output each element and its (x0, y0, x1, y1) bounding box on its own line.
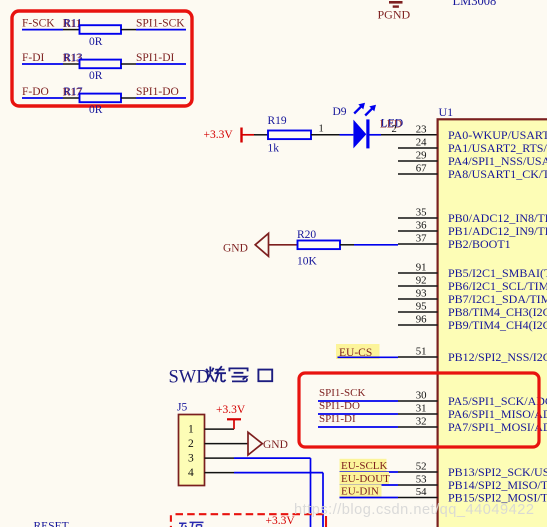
resistor R17 body (80, 94, 122, 103)
resistor R17 left pin (63, 97, 79, 99)
svg-text:24: 24 (416, 136, 427, 148)
svg-text:PB1/ADC12_IN9/TIM3: PB1/ADC12_IN9/TIM3 (448, 224, 547, 238)
svg-text:10K: 10K (297, 256, 318, 268)
svg-text:SPI1-SCK: SPI1-SCK (319, 387, 366, 399)
svg-text:PB7/I2C1_SDA/TIM4: PB7/I2C1_SDA/TIM4 (448, 292, 547, 306)
svg-text:PA5/SPI1_SCK/ADC12: PA5/SPI1_SCK/ADC12 (448, 394, 547, 408)
svg-text:0R: 0R (89, 36, 103, 48)
wire EU-DOUT to U1 (340, 484, 399, 486)
svg-text:PA8/USART1_CK/TIM1: PA8/USART1_CK/TIM1 (448, 167, 547, 181)
svg-text:R20: R20 (297, 229, 316, 241)
resistor R19 designator (268, 115, 287, 127)
svg-text:PA6/SPI1_MISO/ADC1: PA6/SPI1_MISO/ADC1 (448, 407, 547, 421)
wire SPI1-DI to U1 (318, 426, 398, 428)
pin number 52 (416, 460, 427, 472)
pin 96 name PB9/TIM4_CH4(I2C1 (448, 318, 547, 332)
svg-text:91: 91 (416, 261, 427, 273)
svg-text:PA7/SPI1_MOSI/ADC1: PA7/SPI1_MOSI/ADC1 (448, 420, 547, 434)
pin 29 stub wire (398, 160, 438, 162)
svg-text:PB8/TIM4_CH3(I2C1: PB8/TIM4_CH3(I2C1 (448, 305, 547, 319)
diode D9 cathode bar (366, 119, 369, 148)
pin 93 name PB7/I2C1_SDA/TIM4 (448, 292, 547, 306)
resistor R19 left pin (254, 134, 268, 136)
resistor R20 body (298, 241, 341, 250)
resistor R11 body (80, 25, 122, 34)
wire J5-4 vertical down (322, 473, 324, 527)
pin number 91 (416, 261, 427, 273)
pin 52 name PB13/SPI2_SCK/USAR (448, 465, 547, 479)
pin number 30 (416, 389, 427, 401)
svg-text:PA0-WKUP/USART2_CTS: PA0-WKUP/USART2_CTS (448, 128, 547, 142)
pin J5-2 stub (205, 443, 249, 445)
power +3.3V bar symbol (242, 128, 255, 143)
diode D9 designator (333, 106, 347, 118)
svg-text:SWD: SWD (169, 368, 210, 388)
svg-text:54: 54 (416, 486, 427, 498)
svg-text:EU-DIN: EU-DIN (341, 485, 379, 497)
pin 51 stub wire (398, 356, 438, 358)
node EU-DIN highlighted label (340, 484, 382, 497)
svg-text:31: 31 (416, 402, 427, 414)
pin 92 stub wire (398, 285, 438, 287)
pin number 95 (416, 300, 427, 312)
pin number 23 (416, 123, 427, 135)
resistor R13 right pin (121, 63, 136, 65)
pin 36 name PB1/ADC12_IN9/TIM3 (448, 224, 547, 238)
svg-text:1: 1 (188, 424, 194, 436)
op-amp U1 body (MCU part) (438, 119, 547, 527)
label reserved (hanzi, clipped) (179, 522, 204, 527)
svg-text:F-DO: F-DO (22, 86, 49, 98)
node SPI1-DI (319, 413, 356, 425)
svg-text:52: 52 (416, 460, 427, 472)
pin number 24 (416, 136, 427, 148)
pin number 67 (416, 162, 427, 174)
pin 53 name PB14/SPI2_MISO/TIM (448, 478, 547, 492)
node SPI1-SCK (319, 387, 366, 399)
node F-DO (22, 86, 49, 98)
svg-text:PB2/BOOT1: PB2/BOOT1 (448, 237, 511, 251)
resistor R17 value 0R (89, 104, 103, 116)
svg-text:LM3008: LM3008 (453, 0, 497, 8)
node PGND label (378, 8, 411, 22)
pin 53 stub wire (398, 484, 438, 486)
label SWD programming port title (169, 366, 273, 387)
diode D9 LED triangle (353, 120, 366, 149)
resistor R13 value 0R (89, 70, 103, 82)
wire J5-3 vertical down (310, 458, 312, 527)
power +3.3V label (reserved box, clipped) (266, 515, 296, 527)
watermark csdn blog url (294, 502, 534, 518)
pin 91 name PB5/I2C1_SMBAI(TIM (448, 266, 547, 280)
svg-text:93: 93 (416, 287, 427, 299)
svg-text:J5: J5 (177, 402, 187, 414)
node LED (double-printed label) (381, 118, 403, 130)
svg-text:RESET: RESET (34, 521, 69, 527)
node F-SCK (22, 17, 55, 29)
svg-text:37: 37 (416, 232, 427, 244)
resistor R13 body (80, 60, 122, 69)
svg-text:GND: GND (263, 439, 288, 451)
pin 30 stub wire (398, 400, 438, 402)
connector J5 body (179, 415, 205, 486)
pin number 32 (416, 415, 427, 427)
svg-text:GND: GND (223, 243, 248, 255)
ground PGND symbol bars (389, 1, 403, 8)
pin 32 name PA7/SPI1_MOSI/ADC1 (448, 420, 547, 434)
svg-text:SPI1-DI: SPI1-DI (319, 413, 356, 425)
pin 96 stub wire (398, 324, 438, 326)
wire: net SPI1-DI right segment (136, 63, 186, 65)
resistor R20 designator (297, 229, 316, 241)
pin number 35 (416, 206, 427, 218)
pin 67 name PA8/USART1_CK/TIM1 (448, 167, 547, 181)
node EU-SCLK highlighted label (340, 459, 388, 472)
node EU-CS highlighted label (336, 344, 380, 359)
pin number 54 (416, 486, 427, 498)
annotation box: F-SCK/F-DI/F-DO jumper group (12, 11, 192, 106)
wire EU-DIN to U1 (340, 497, 399, 499)
pin 37 name PB2/BOOT1 (448, 237, 511, 251)
power +3.3V bar symbol (J5) (227, 419, 241, 429)
ground GND label (R20 branch) (223, 243, 248, 255)
svg-text:2: 2 (392, 124, 397, 135)
power +3.3V label (J5) (216, 404, 246, 416)
label LM3008 (clipped at top) (453, 0, 497, 8)
svg-text:32: 32 (416, 415, 427, 427)
svg-text:PGND: PGND (378, 8, 411, 22)
node SPI1-DI (136, 52, 175, 64)
svg-text:+3.3V: +3.3V (216, 404, 246, 416)
wire LED cathode blue segment (370, 134, 382, 136)
pin 37 stub wire (398, 243, 438, 245)
pin 93 stub wire (398, 298, 438, 300)
svg-text:SPI1-DO: SPI1-DO (319, 400, 360, 412)
svg-text:EU-SCLK: EU-SCLK (341, 460, 388, 472)
wire: net SPI1-SCK right segment (136, 29, 186, 31)
pin number 1 (LED anode) (319, 124, 324, 135)
pin 24 stub wire (398, 147, 438, 149)
pin 95 name PB8/TIM4_CH3(I2C1 (448, 305, 547, 319)
wire: net F-SCK left segment (22, 29, 63, 31)
pin 91 stub wire (398, 272, 438, 274)
svg-text:PA1/USART2_RTS/ADC1: PA1/USART2_RTS/ADC1 (448, 141, 547, 155)
pin number 96 (416, 313, 427, 325)
wire GND to R20 (269, 244, 298, 246)
connector J5 designator (177, 402, 187, 414)
pin number 31 (416, 402, 427, 414)
pin number 37 (416, 232, 427, 244)
svg-text:2: 2 (188, 438, 194, 450)
pin 67 stub wire (398, 173, 438, 175)
svg-text:D9: D9 (333, 106, 347, 118)
svg-text:96: 96 (416, 313, 427, 325)
svg-text:PA4/SPI1_NSS/USART2: PA4/SPI1_NSS/USART2 (448, 154, 547, 168)
node RESET (clipped at bottom) (34, 521, 69, 527)
svg-text:SPI1-SCK: SPI1-SCK (136, 17, 185, 29)
resistor R11 right pin (121, 29, 136, 31)
pin 35 stub wire (398, 217, 438, 219)
pin 92 name PB6/I2C1_SCL/TIM4 (448, 279, 547, 293)
svg-text:+3.3V: +3.3V (204, 129, 234, 141)
ground GND arrow symbol (255, 233, 268, 256)
wire: net SPI1-DO right segment (136, 97, 186, 99)
node F-DI (22, 52, 45, 64)
pin 35 name PB0/ADC12_IN8/TIM3 (448, 211, 547, 225)
pin number 53 (416, 473, 427, 485)
pin 52 stub wire (398, 471, 438, 473)
pin number 92 (416, 274, 427, 286)
pin 31 name PA6/SPI1_MISO/ADC1 (448, 407, 547, 421)
pin 54 stub wire (398, 497, 438, 499)
wire SPI1-DO to U1 (318, 413, 398, 415)
wire EU-SCLK to U1 (340, 471, 399, 473)
svg-text:23: 23 (416, 123, 427, 135)
pin J5-4 stub (205, 472, 235, 474)
wire R20 to U1 pin 37 (354, 244, 398, 246)
resistor R20 value 10K (297, 256, 318, 268)
svg-text:67: 67 (416, 162, 427, 174)
pin 32 stub wire (398, 426, 438, 428)
resistor R19 body (268, 131, 311, 140)
svg-text:35: 35 (416, 206, 427, 218)
pin 30 name PA5/SPI1_SCK/ADC12 (448, 394, 547, 408)
node SPI1-DO (136, 86, 179, 98)
pin number 51 (416, 345, 427, 357)
annotation dashed box: reserved section (clipped) (171, 514, 327, 527)
diode D9 light arrows (354, 103, 376, 116)
wire R19 to LED anode (311, 134, 353, 136)
wire J5-4 horizontal (234, 472, 323, 474)
wire EU-CS to U1 pin 51 (338, 356, 399, 358)
resistor R17 right pin (121, 97, 136, 99)
resistor R17 designator (64, 86, 83, 98)
pin number 29 (416, 149, 427, 161)
resistor R13 left pin (63, 63, 79, 65)
svg-text:51: 51 (416, 345, 427, 357)
pin J5-1 stub (205, 428, 235, 430)
connector J5 pin labels 1-4 (188, 424, 194, 480)
resistor R11 value 0R (89, 36, 103, 48)
svg-text:PB12/SPI2_NSS/I2C2: PB12/SPI2_NSS/I2C2 (448, 350, 547, 364)
op-amp U1 designator (439, 105, 454, 119)
svg-text:30: 30 (416, 389, 427, 401)
pin 95 stub wire (398, 311, 438, 313)
svg-text:1: 1 (319, 124, 324, 135)
wire LED to U1 pin 23 (381, 134, 437, 136)
svg-text:+3.3V: +3.3V (266, 515, 296, 527)
annotation box: SPI1 pins group (299, 373, 539, 447)
svg-text:SPI1-DO: SPI1-DO (136, 86, 179, 98)
resistor R13 designator (64, 52, 83, 64)
svg-text:PB5/I2C1_SMBAI(TIM: PB5/I2C1_SMBAI(TIM (448, 266, 547, 280)
pin 24 name PA1/USART2_RTS/ADC1 (448, 141, 547, 155)
pin 31 stub wire (398, 413, 438, 415)
svg-text:36: 36 (416, 219, 427, 231)
pin 29 name PA4/SPI1_NSS/USART2 (448, 154, 547, 168)
resistor R11 left pin (63, 29, 79, 31)
resistor R11 designator (64, 17, 83, 29)
svg-text:0R: 0R (89, 104, 103, 116)
node SPI1-SCK (136, 17, 185, 29)
wire J5-3 horizontal (234, 457, 311, 459)
pin 54 name PB15/SPI2_MOSI/TIM (448, 490, 547, 504)
power +3.3V label (R19 feed) (204, 129, 234, 141)
svg-text:PB13/SPI2_SCK/USAR: PB13/SPI2_SCK/USAR (448, 465, 547, 479)
pin number 93 (416, 287, 427, 299)
resistor R20 right pin (340, 244, 354, 246)
pin number 36 (416, 219, 427, 231)
ground GND arrow symbol (J5) (248, 432, 262, 455)
ground GND label (J5) (263, 439, 288, 451)
svg-text:U1: U1 (439, 105, 454, 119)
node SPI1-DO (319, 400, 360, 412)
wire: net F-DI left segment (22, 63, 63, 65)
pin 51 name PB12/SPI2_NSS/I2C2 (448, 350, 547, 364)
pin J5-3 stub (205, 457, 235, 459)
svg-text:F-SCK: F-SCK (22, 17, 55, 29)
pin 36 stub wire (398, 230, 438, 232)
svg-text:SPI1-DI: SPI1-DI (136, 52, 175, 64)
node EU-DOUT highlighted label (340, 472, 391, 485)
wire: net F-DO left segment (22, 97, 63, 99)
pin number 2 (LED cathode) (392, 124, 397, 135)
wire SPI1-SCK to U1 (318, 400, 398, 402)
svg-text:PB0/ADC12_IN8/TIM3: PB0/ADC12_IN8/TIM3 (448, 211, 547, 225)
svg-text:0R: 0R (89, 70, 103, 82)
svg-text:PB9/TIM4_CH4(I2C1: PB9/TIM4_CH4(I2C1 (448, 318, 547, 332)
svg-text:4: 4 (188, 467, 194, 479)
svg-text:3: 3 (188, 453, 194, 465)
svg-text:PB6/I2C1_SCL/TIM4: PB6/I2C1_SCL/TIM4 (448, 279, 547, 293)
pin 23 name PA0-WKUP/USART2_CTS (448, 128, 547, 142)
svg-text:29: 29 (416, 149, 427, 161)
svg-text:R19: R19 (268, 115, 287, 127)
svg-text:EU-DOUT: EU-DOUT (341, 473, 390, 485)
svg-text:https://blog.csdn.net/qq_44049: https://blog.csdn.net/qq_44049422 (294, 502, 534, 518)
svg-text:53: 53 (416, 473, 427, 485)
svg-text:92: 92 (416, 274, 427, 286)
svg-text:95: 95 (416, 300, 427, 312)
svg-text:F-DI: F-DI (22, 52, 45, 64)
svg-text:1k: 1k (268, 142, 280, 154)
resistor R19 value 1k (268, 142, 280, 154)
